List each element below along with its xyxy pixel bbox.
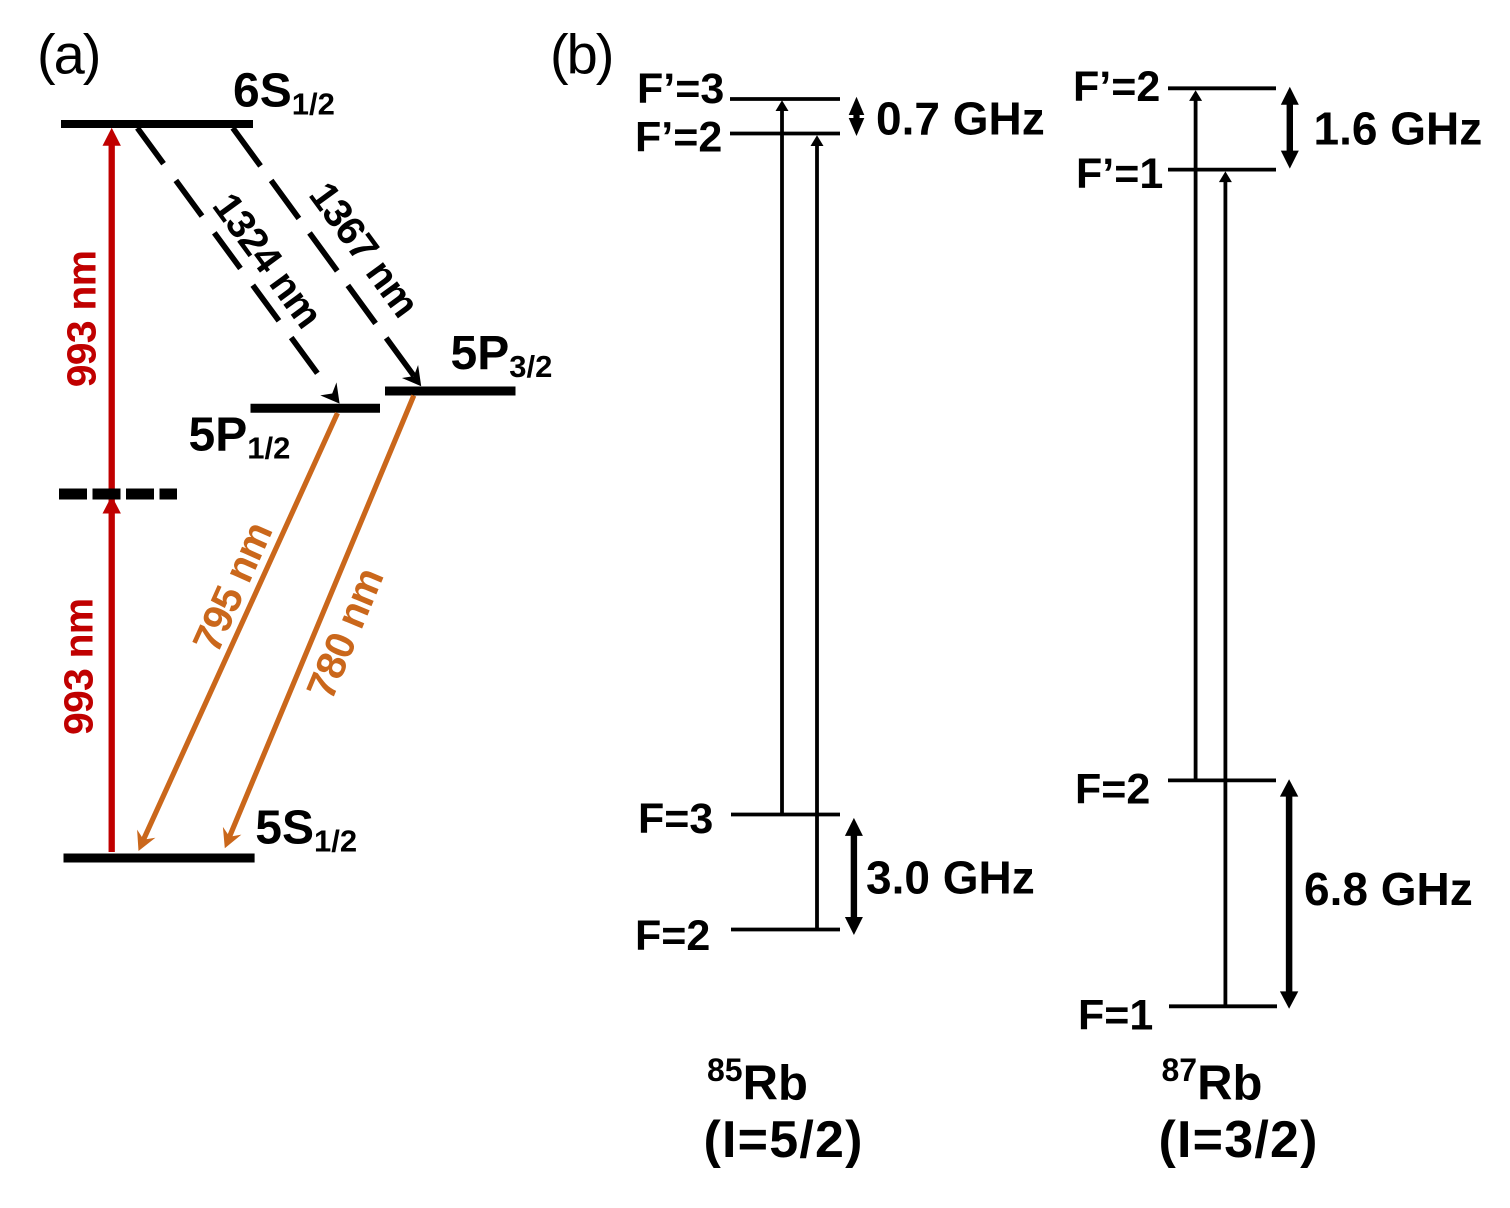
Rb85 0.7 GHz double arrow heads — [849, 97, 865, 115]
svg-text:993 nm: 993 nm — [59, 251, 105, 388]
Rb87 transition arrow F=1 to F'=1 head — [1219, 171, 1232, 182]
svg-text:6.8 GHz: 6.8 GHz — [1304, 863, 1473, 915]
svg-text:3.0 GHz: 3.0 GHz — [866, 852, 1035, 904]
svg-text:85Rb: 85Rb — [707, 1052, 808, 1111]
svg-text:795 nm: 795 nm — [184, 515, 282, 658]
Rb85 0.7 GHz double arrow shaft — [853, 110, 859, 124]
Rb87 level line F'=1 — [1168, 168, 1276, 172]
Rb85 level line F'=3 — [730, 97, 840, 101]
Rb85 transition arrow F=3 to F'=3 head — [776, 100, 789, 111]
svg-text:F’=2: F’=2 — [1073, 63, 1160, 111]
svg-text:F’=1: F’=1 — [1076, 150, 1163, 198]
Rb85 level line F=3 — [731, 813, 840, 817]
orange decay arrow 780 nm head — [223, 827, 242, 848]
dashed decay arrow 1324 nm head — [320, 382, 339, 403]
virtual level dashed line — [59, 489, 177, 500]
Rb85 transition arrow F=2 to F'=2 shaft — [815, 142, 819, 928]
dashed decay arrow 1367 nm line — [233, 128, 416, 379]
svg-text:5P1/2: 5P1/2 — [189, 409, 291, 466]
svg-text:5P3/2: 5P3/2 — [451, 327, 553, 384]
Rb87 6.8 GHz double arrow shaft — [1286, 794, 1293, 994]
svg-text:993 nm: 993 nm — [56, 599, 102, 736]
Rb87 6.8 GHz double arrow heads — [1280, 779, 1298, 796]
Rb87 1.6 GHz double arrow heads — [1281, 87, 1299, 105]
svg-text:(I=5/2): (I=5/2) — [704, 1111, 864, 1169]
Rb85 level line F'=2 — [730, 132, 840, 136]
Rb85 transition arrow F=2 to F'=2 head — [811, 135, 824, 146]
svg-text:F=2: F=2 — [635, 912, 710, 960]
red arrowhead at virtual level — [103, 496, 121, 514]
red arrowhead at 6S1/2 — [103, 128, 121, 146]
orange decay arrow 780 nm shaft — [228, 396, 414, 842]
dashed decay arrow 1367 nm head — [402, 365, 421, 386]
svg-text:87Rb: 87Rb — [1162, 1052, 1263, 1111]
level line 6S1/2 — [61, 120, 253, 128]
Rb87 transition arrow F=1 to F'=1 shaft — [1224, 178, 1228, 1005]
svg-text:F=2: F=2 — [1075, 766, 1150, 814]
Rb85 level line F=2 — [731, 928, 840, 932]
svg-text:F’=2: F’=2 — [635, 114, 722, 162]
Rb85 transition arrow F=3 to F'=3 shaft — [780, 107, 784, 813]
svg-text:5S1/2: 5S1/2 — [255, 802, 357, 859]
dashed decay arrow 1324 nm line — [137, 128, 328, 388]
Rb87 1.6 GHz double arrow shaft — [1287, 102, 1293, 152]
Rb87 level line F=2 — [1168, 779, 1276, 783]
Rb87 level line F'=2 — [1168, 86, 1276, 90]
svg-text:(I=3/2): (I=3/2) — [1159, 1111, 1319, 1169]
svg-text:F=3: F=3 — [638, 795, 713, 843]
Rb87 level line F=1 — [1169, 1004, 1277, 1008]
svg-text:F’=3: F’=3 — [637, 65, 724, 113]
svg-text:6S1/2: 6S1/2 — [233, 65, 335, 122]
svg-text:0.7 GHz: 0.7 GHz — [876, 93, 1045, 145]
svg-text:1.6 GHz: 1.6 GHz — [1314, 103, 1483, 155]
Rb87 transition arrow F=2 to F'=2 head — [1189, 90, 1202, 101]
level line 5P1/2 — [251, 404, 381, 413]
svg-text:(b): (b) — [550, 22, 612, 85]
level line 5S1/2 — [64, 854, 255, 863]
orange decay arrow 795 nm shaft — [142, 413, 338, 844]
svg-text:(a): (a) — [37, 22, 99, 85]
red pump arrow shaft 993 nm — [109, 143, 115, 852]
Rb85 3.0 GHz double arrow shaft — [851, 833, 857, 919]
Rb87 transition arrow F=2 to F'=2 shaft — [1194, 97, 1198, 779]
level line 5P3/2 — [385, 387, 516, 396]
orange decay arrow 795 nm head — [137, 830, 155, 851]
svg-text:F=1: F=1 — [1078, 992, 1153, 1040]
Rb85 3.0 GHz double arrow heads — [845, 818, 863, 836]
